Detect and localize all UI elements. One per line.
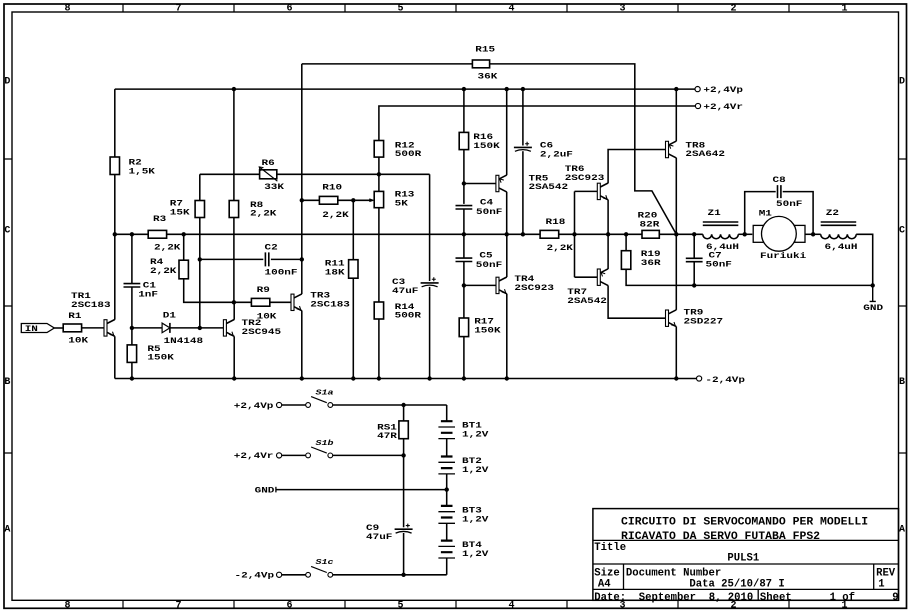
wire R2 to node <box>114 175 116 235</box>
junction C2/TR3/R15 column <box>300 257 304 261</box>
wire TR3 collector <box>301 259 303 294</box>
wire R12 to R6 row <box>378 157 380 174</box>
wire TR4 emitter to rail <box>506 294 508 379</box>
svg-text:C4: C4 <box>480 198 493 207</box>
frame zone numbers bottom <box>65 601 848 612</box>
junction TR8/rail <box>674 87 678 91</box>
wire node to R19 <box>625 234 627 250</box>
R6 ref label <box>262 158 275 167</box>
svg-text:TR6: TR6 <box>565 164 585 173</box>
variable resistor R13 <box>374 191 383 207</box>
R13 labels <box>395 190 415 208</box>
svg-text:1: 1 <box>878 579 884 591</box>
wire R9 to TR3 base <box>270 301 291 303</box>
terminal +2,4Vr switch <box>277 453 282 458</box>
svg-text:C5: C5 <box>479 251 492 260</box>
inductor Z1 <box>703 222 739 239</box>
wire TR6/TR7 emitters <box>607 200 609 269</box>
TR9 labels <box>684 308 724 326</box>
wire to TR6 base <box>575 190 598 192</box>
wire R5 to rail <box>131 362 133 378</box>
svg-text:C6: C6 <box>540 141 553 150</box>
transistor TR1 <box>104 320 115 337</box>
svg-text:5: 5 <box>398 601 404 612</box>
C6 labels <box>540 141 573 159</box>
C4 ref label <box>480 198 493 207</box>
transistor TR8 <box>666 141 677 158</box>
resistor R4 <box>179 260 188 279</box>
R2 labels <box>129 158 156 176</box>
wire TR3 emitter to rail <box>301 311 303 379</box>
R16 labels <box>473 132 500 150</box>
terminal -2,4Vp switch <box>277 572 282 577</box>
svg-text:7: 7 <box>176 601 182 612</box>
junction R8/rail <box>232 87 236 91</box>
wire R11 to rail <box>352 278 354 378</box>
svg-text:TR7: TR7 <box>567 287 587 296</box>
svg-text:1: 1 <box>842 4 848 15</box>
C7 ref label <box>709 251 722 260</box>
junction C3/rail <box>427 376 431 380</box>
svg-text:R6: R6 <box>262 158 275 167</box>
wire R14 to rail <box>378 319 380 379</box>
wire to C2 <box>200 258 263 260</box>
svg-text:R17: R17 <box>474 317 494 326</box>
svg-text:GND: GND <box>255 486 275 495</box>
svg-text:Date: September 8, 2010: Date: September 8, 2010 <box>594 592 753 604</box>
resistor R18 <box>540 230 559 238</box>
svg-text:B: B <box>4 377 10 388</box>
battery BT4 <box>438 541 455 558</box>
wire R17 to rail <box>463 337 465 379</box>
R12 labels <box>395 141 422 159</box>
R7 labels <box>170 199 190 217</box>
junction C2 left <box>198 257 202 261</box>
transistor TR5 <box>496 175 507 192</box>
junction R10/R11 <box>351 198 355 202</box>
wire C4 to node <box>463 209 465 258</box>
wire D1 to TR2 base <box>171 327 224 329</box>
svg-text:+2,4Vp: +2,4Vp <box>234 401 274 410</box>
wire TR1 emitter to rail <box>114 336 116 378</box>
junction R19 top <box>624 232 628 236</box>
resistor R11 <box>349 260 358 279</box>
ground symbol GND <box>870 285 876 301</box>
svg-text:Z2: Z2 <box>826 209 839 218</box>
wire R6 to C3 corner <box>277 173 430 175</box>
svg-text:36R: 36R <box>641 258 661 267</box>
svg-text:R12: R12 <box>395 141 415 150</box>
svg-text:500R: 500R <box>395 150 422 159</box>
junction R8/TR2/R9 <box>232 300 236 304</box>
wire BT2 to BT3 <box>446 474 448 506</box>
svg-text:C3: C3 <box>392 277 405 286</box>
junction C1 top <box>130 232 134 236</box>
svg-text:D: D <box>4 77 10 88</box>
D1 ref label <box>163 311 176 320</box>
C9 labels <box>366 524 393 542</box>
resistor R15 <box>472 60 489 68</box>
wire to C1 <box>131 234 133 283</box>
wire C8 left leg <box>745 192 776 235</box>
svg-text:150K: 150K <box>473 141 500 150</box>
capacitor C1 <box>124 284 141 287</box>
wire C3 to rail <box>429 287 431 379</box>
svg-text:+2,4Vr: +2,4Vr <box>703 102 743 111</box>
wire to S1c <box>282 574 306 576</box>
resistor R17 <box>459 318 468 337</box>
wire +2,4Vr rail <box>379 106 696 141</box>
diode D1 <box>162 323 170 333</box>
svg-text:2,2K: 2,2K <box>154 243 181 252</box>
wire to S1b <box>282 454 306 456</box>
wire node to R4 <box>183 234 185 260</box>
svg-text:4: 4 <box>509 601 515 612</box>
svg-text:1,2V: 1,2V <box>462 515 489 524</box>
BT1 labels <box>462 421 489 439</box>
wire node to TR4 base <box>464 284 496 286</box>
C1 ref label <box>143 281 156 290</box>
svg-text:R15: R15 <box>475 45 495 54</box>
capacitor C6 <box>514 142 532 152</box>
wire node to R5 <box>131 328 133 345</box>
wire R8 to node <box>233 218 235 303</box>
svg-text:R4: R4 <box>150 258 163 267</box>
capacitor C7 <box>686 258 703 261</box>
resistor RS1 <box>399 421 408 439</box>
svg-text:R10: R10 <box>322 183 342 192</box>
svg-text:50nF: 50nF <box>476 207 503 216</box>
TR4 labels <box>514 275 554 293</box>
wire R6 row to R7 <box>199 174 201 200</box>
svg-text:2SA642: 2SA642 <box>685 150 725 159</box>
title block <box>593 509 899 601</box>
BT3 labels <box>462 506 489 524</box>
svg-text:6,4uH: 6,4uH <box>825 243 858 252</box>
svg-text:R19: R19 <box>641 249 661 258</box>
switch S1b <box>306 447 333 458</box>
svg-text:9: 9 <box>892 592 898 604</box>
capacitor C4 <box>456 206 473 209</box>
svg-text:Data 25/10/87 I: Data 25/10/87 I <box>689 579 784 591</box>
svg-text:A: A <box>899 525 905 536</box>
wire node to R11 <box>352 200 354 259</box>
wire TR6/TR7 base column <box>574 191 576 277</box>
terminal -2,4Vp <box>697 376 702 381</box>
wire R7 to D1 row <box>199 218 201 328</box>
svg-text:1 of: 1 of <box>830 592 855 604</box>
wire node to TR5 base <box>464 183 496 185</box>
svg-text:+2,4Vr: +2,4Vr <box>234 452 274 461</box>
Z2 ref label <box>826 209 839 218</box>
svg-text:2: 2 <box>731 4 737 15</box>
svg-text:TR8: TR8 <box>685 141 705 150</box>
svg-text:C7: C7 <box>709 251 722 260</box>
TR2 labels <box>242 319 282 337</box>
transistor TR6 <box>597 183 608 200</box>
svg-text:C: C <box>4 226 10 237</box>
wire S1b to RS1 <box>333 454 404 456</box>
TR7 labels <box>567 287 607 305</box>
svg-text:D: D <box>899 77 905 88</box>
junction C6/error node <box>521 232 525 236</box>
TR3 labels <box>310 291 350 309</box>
svg-text:47uF: 47uF <box>366 532 393 541</box>
junction Z2/GND <box>871 283 875 287</box>
svg-text:C9: C9 <box>366 524 379 533</box>
wire TR1 collector <box>114 234 116 319</box>
svg-text:-2,4Vp: -2,4Vp <box>235 571 275 580</box>
motor M1 <box>753 216 805 251</box>
svg-text:10K: 10K <box>257 312 277 321</box>
wire C8 right leg <box>783 192 813 235</box>
input port IN <box>21 324 54 334</box>
svg-text:8: 8 <box>65 4 71 15</box>
Z1 value label <box>706 243 739 252</box>
wire R19 to ground line <box>626 269 694 285</box>
R17 labels <box>474 317 501 335</box>
svg-text:C8: C8 <box>773 175 786 184</box>
svg-text:50nF: 50nF <box>476 260 503 269</box>
svg-text:A4: A4 <box>598 579 611 591</box>
svg-text:BT2: BT2 <box>462 456 482 465</box>
wire TR2 emitter to rail <box>233 336 235 378</box>
svg-text:+2,4Vp: +2,4Vp <box>703 85 743 94</box>
svg-text:Sheet: Sheet <box>760 592 792 604</box>
junction R12/R13 <box>377 172 381 176</box>
wire TR2 collector <box>233 302 235 319</box>
svg-text:GND: GND <box>863 303 883 312</box>
wire node to R10 <box>302 199 320 201</box>
junction TR5 base <box>462 181 466 185</box>
junction TR9 emitter/rail <box>674 376 678 380</box>
wire +2,4Vp rail <box>115 88 695 90</box>
R13 wiper arrow <box>369 199 373 202</box>
svg-text:2SC945: 2SC945 <box>242 327 282 336</box>
C3 labels <box>392 277 419 295</box>
battery BT2 <box>438 457 455 474</box>
junction R17/rail <box>462 376 466 380</box>
svg-text:RICAVATO DA SERVO FUTABA FPS2: RICAVATO DA SERVO FUTABA FPS2 <box>621 530 820 543</box>
resistor R7 <box>195 201 204 218</box>
resistor R2 <box>110 157 119 175</box>
wire R1 to TR1 base <box>82 327 105 329</box>
wire corner to C3 <box>429 174 431 281</box>
C8 ref label <box>773 175 786 184</box>
wire ground line to motor return <box>694 284 873 286</box>
wire node to C7 <box>693 234 695 258</box>
svg-text:R3: R3 <box>153 214 166 223</box>
svg-text:3: 3 <box>620 4 626 15</box>
svg-text:5K: 5K <box>395 199 408 208</box>
wire battery top <box>446 405 448 421</box>
svg-text:C1: C1 <box>143 281 156 290</box>
svg-text:2,2K: 2,2K <box>322 210 349 219</box>
svg-text:R13: R13 <box>395 190 415 199</box>
terminal +2,4Vp switch <box>277 402 282 407</box>
svg-text:R14: R14 <box>395 302 415 311</box>
Z1 ref label <box>708 209 721 218</box>
resistor R3 <box>148 230 166 238</box>
frame zone letters left <box>4 77 10 536</box>
svg-text:S1a: S1a <box>316 389 334 397</box>
svg-text:47uF: 47uF <box>392 286 419 295</box>
junction R14/rail <box>377 376 381 380</box>
transistor TR7 <box>597 269 608 286</box>
svg-text:R11: R11 <box>325 259 345 268</box>
wire C9 to S1c row <box>403 533 405 575</box>
wire C6 to node <box>522 151 524 234</box>
wire rail to R16 <box>463 89 465 132</box>
wire C5 to R17 <box>463 262 465 319</box>
svg-text:2SA542: 2SA542 <box>567 296 607 305</box>
TR6 labels <box>565 164 605 182</box>
junction emitters/output row <box>606 232 610 236</box>
junction C7 top <box>692 232 696 236</box>
frame zone numbers top <box>65 4 848 15</box>
terminal +2,4Vp <box>695 87 700 92</box>
inductor Z2 <box>821 222 857 239</box>
wire R10 to R13 wiper <box>338 199 373 201</box>
resistor R10 <box>319 196 337 204</box>
svg-text:6: 6 <box>287 4 293 15</box>
junction error node <box>462 232 466 236</box>
wire R4 to TR2 collector node <box>184 279 234 303</box>
junction TR4 emitter/rail <box>505 376 509 380</box>
svg-text:BT4: BT4 <box>462 540 482 549</box>
junction R7 bottom/base <box>198 326 202 330</box>
battery BT3 <box>438 506 455 523</box>
svg-text:8: 8 <box>65 601 71 612</box>
R10 ref label <box>322 183 342 192</box>
svg-text:S1b: S1b <box>316 439 334 447</box>
svg-text:R9: R9 <box>257 285 270 294</box>
svg-text:1,2V: 1,2V <box>462 465 489 474</box>
C5 ref label <box>479 251 492 260</box>
svg-text:TR3: TR3 <box>310 291 330 300</box>
resistor R14 <box>374 302 383 319</box>
svg-text:500R: 500R <box>395 311 422 320</box>
wire C7 to ground line <box>693 262 695 286</box>
junction C8 left <box>743 232 747 236</box>
resistor R1 <box>63 324 81 332</box>
junction TR1/C1/D1/R5 <box>130 326 134 330</box>
svg-text:15K: 15K <box>170 208 190 217</box>
wire to S1a <box>282 404 306 406</box>
wire Z1 to motor <box>738 233 752 235</box>
wire TR4 collector to node <box>506 234 508 277</box>
svg-text:BT3: BT3 <box>462 506 482 515</box>
svg-text:R1: R1 <box>68 311 81 320</box>
R4 labels <box>150 258 177 276</box>
BT4 labels <box>462 540 489 558</box>
wire TR5 collector to node <box>506 192 508 235</box>
wire R7 to R6 <box>200 173 260 175</box>
svg-text:TR1: TR1 <box>71 291 91 300</box>
wire R13 to R14 <box>378 208 380 302</box>
wire node to D1 <box>132 327 162 329</box>
wire motor to Z2 <box>805 233 821 235</box>
svg-text:50nF: 50nF <box>706 260 733 269</box>
transistor TR3 <box>291 294 302 311</box>
svg-text:A: A <box>4 525 10 536</box>
junction R10 left <box>300 198 304 202</box>
svg-text:150K: 150K <box>147 353 174 362</box>
svg-text:-2,4Vp: -2,4Vp <box>705 375 745 384</box>
R18 ref label <box>546 217 566 226</box>
resistor R19 <box>621 251 630 270</box>
resistor R9 <box>251 298 269 306</box>
M1 ref label <box>759 209 772 218</box>
frame row dividers <box>4 159 907 453</box>
wire S1a to battery <box>333 404 447 406</box>
svg-text:2SC923: 2SC923 <box>514 283 554 292</box>
svg-text:R5: R5 <box>147 344 160 353</box>
junction R5/rail <box>130 376 134 380</box>
capacitor C9 <box>395 524 413 534</box>
wire node to R3 <box>115 233 148 235</box>
junction TR5/TR4 collectors <box>505 232 509 236</box>
svg-text:Z1: Z1 <box>708 209 721 218</box>
wire BT1 to BT2 <box>446 439 448 457</box>
junction RS1 top <box>401 403 405 407</box>
wire R18 to R20 <box>559 233 642 235</box>
RS1 labels <box>377 423 397 441</box>
junction R2/TR1/R3 <box>113 232 117 236</box>
svg-text:S1c: S1c <box>316 559 334 567</box>
battery BT1 <box>438 421 455 438</box>
resistor R5 <box>127 345 136 363</box>
wire node to C9 <box>403 455 405 527</box>
svg-text:C: C <box>899 226 905 237</box>
wire -2,4Vp rail <box>115 378 697 380</box>
R9 ref label <box>257 285 270 294</box>
R1 ref label <box>68 311 81 320</box>
wire node to R9 <box>234 301 252 303</box>
junction C7 bottom <box>692 283 696 287</box>
svg-text:1N4148: 1N4148 <box>164 336 204 345</box>
resistor R20 <box>642 230 659 238</box>
switch S1a <box>306 397 333 408</box>
svg-text:7: 7 <box>176 4 182 15</box>
terminal +2,4Vr <box>695 103 700 108</box>
capacitor C3 <box>421 277 439 287</box>
wire GND to battery mid <box>276 489 447 491</box>
capacitor C8 <box>778 185 781 198</box>
svg-text:R18: R18 <box>546 217 566 226</box>
capacitor C2 <box>265 252 268 266</box>
junction output node <box>674 232 678 236</box>
GND port tick <box>275 487 277 493</box>
svg-text:PULS1: PULS1 <box>727 553 759 565</box>
svg-text:Furiuki: Furiuki <box>760 252 806 261</box>
wire to R15 <box>302 63 473 65</box>
svg-text:R20: R20 <box>638 211 658 220</box>
wire TR7 collector to TR9 base <box>608 286 665 319</box>
svg-text:B: B <box>899 377 905 388</box>
R8 labels <box>250 200 277 218</box>
TR1 labels <box>71 291 111 309</box>
junction TR2 emitter/rail <box>232 376 236 380</box>
svg-text:47R: 47R <box>377 432 397 441</box>
wire to TR7 base <box>575 276 598 278</box>
R20 ref label <box>638 211 658 220</box>
wire TR9 emitter to rail <box>675 327 677 379</box>
transistor TR9 <box>666 310 677 327</box>
transistor TR2 <box>223 320 234 337</box>
wire C1 to node <box>131 287 133 328</box>
junction TR5/rail <box>505 87 509 91</box>
